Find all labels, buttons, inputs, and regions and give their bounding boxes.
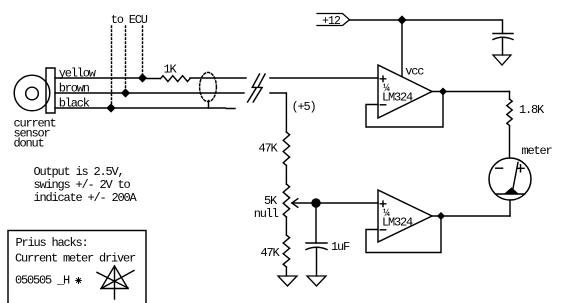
svg-text:LM324: LM324	[382, 216, 413, 230]
svg-text:swings +/- 2V to: swings +/- 2V to	[34, 178, 131, 192]
svg-text:050505 _H: 050505 _H	[15, 274, 70, 288]
svg-text:null: null	[254, 207, 279, 221]
svg-text:meter: meter	[522, 144, 553, 158]
svg-text:47K: 47K	[261, 246, 281, 260]
svg-text:yellow: yellow	[59, 66, 97, 80]
svg-text:+12: +12	[322, 15, 341, 28]
svg-text:Prius hacks:: Prius hacks:	[16, 236, 88, 250]
svg-text:(+5): (+5)	[292, 100, 316, 114]
svg-text:donut: donut	[14, 137, 44, 151]
svg-text:indicate +/- 200A: indicate +/- 200A	[34, 191, 138, 205]
svg-text:Output is 2.5V,: Output is 2.5V,	[34, 165, 124, 179]
svg-text:LM324: LM324	[382, 91, 413, 105]
svg-text:black: black	[59, 96, 90, 110]
svg-text:to ECU: to ECU	[111, 13, 148, 27]
svg-text:1uF: 1uF	[331, 240, 350, 254]
svg-text:5K: 5K	[264, 194, 278, 208]
svg-text:47K: 47K	[259, 142, 279, 156]
svg-text:vcc: vcc	[405, 64, 424, 78]
svg-text:Current meter driver: Current meter driver	[15, 252, 136, 266]
svg-text:brown: brown	[59, 81, 90, 95]
svg-text:1.8K: 1.8K	[519, 103, 545, 117]
svg-text:1K: 1K	[164, 62, 178, 76]
